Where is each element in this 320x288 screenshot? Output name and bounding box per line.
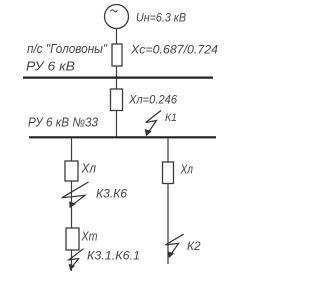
svg-text:К2: К2	[187, 239, 201, 253]
svg-text:РУ 6 кВ №33: РУ 6 кВ №33	[28, 114, 99, 129]
svg-text:К1: К1	[165, 112, 177, 124]
svg-text:К3.1.К6.1: К3.1.К6.1	[87, 248, 140, 262]
svg-text:Хл: Хл	[81, 161, 97, 176]
svg-text:РУ 6 кВ: РУ 6 кВ	[26, 59, 75, 74]
svg-text:Хт: Хт	[81, 229, 98, 244]
svg-text:Uн=6.3 кВ: Uн=6.3 кВ	[136, 10, 186, 24]
svg-text:К3.К6: К3.К6	[96, 187, 127, 201]
svg-text:Xc=0.687/0.724: Xc=0.687/0.724	[130, 42, 218, 56]
svg-text:Хл=0.246: Хл=0.246	[128, 93, 177, 107]
svg-text:Хл: Хл	[180, 162, 194, 177]
svg-text:п/с "Головоны": п/с "Головоны"	[27, 41, 108, 56]
